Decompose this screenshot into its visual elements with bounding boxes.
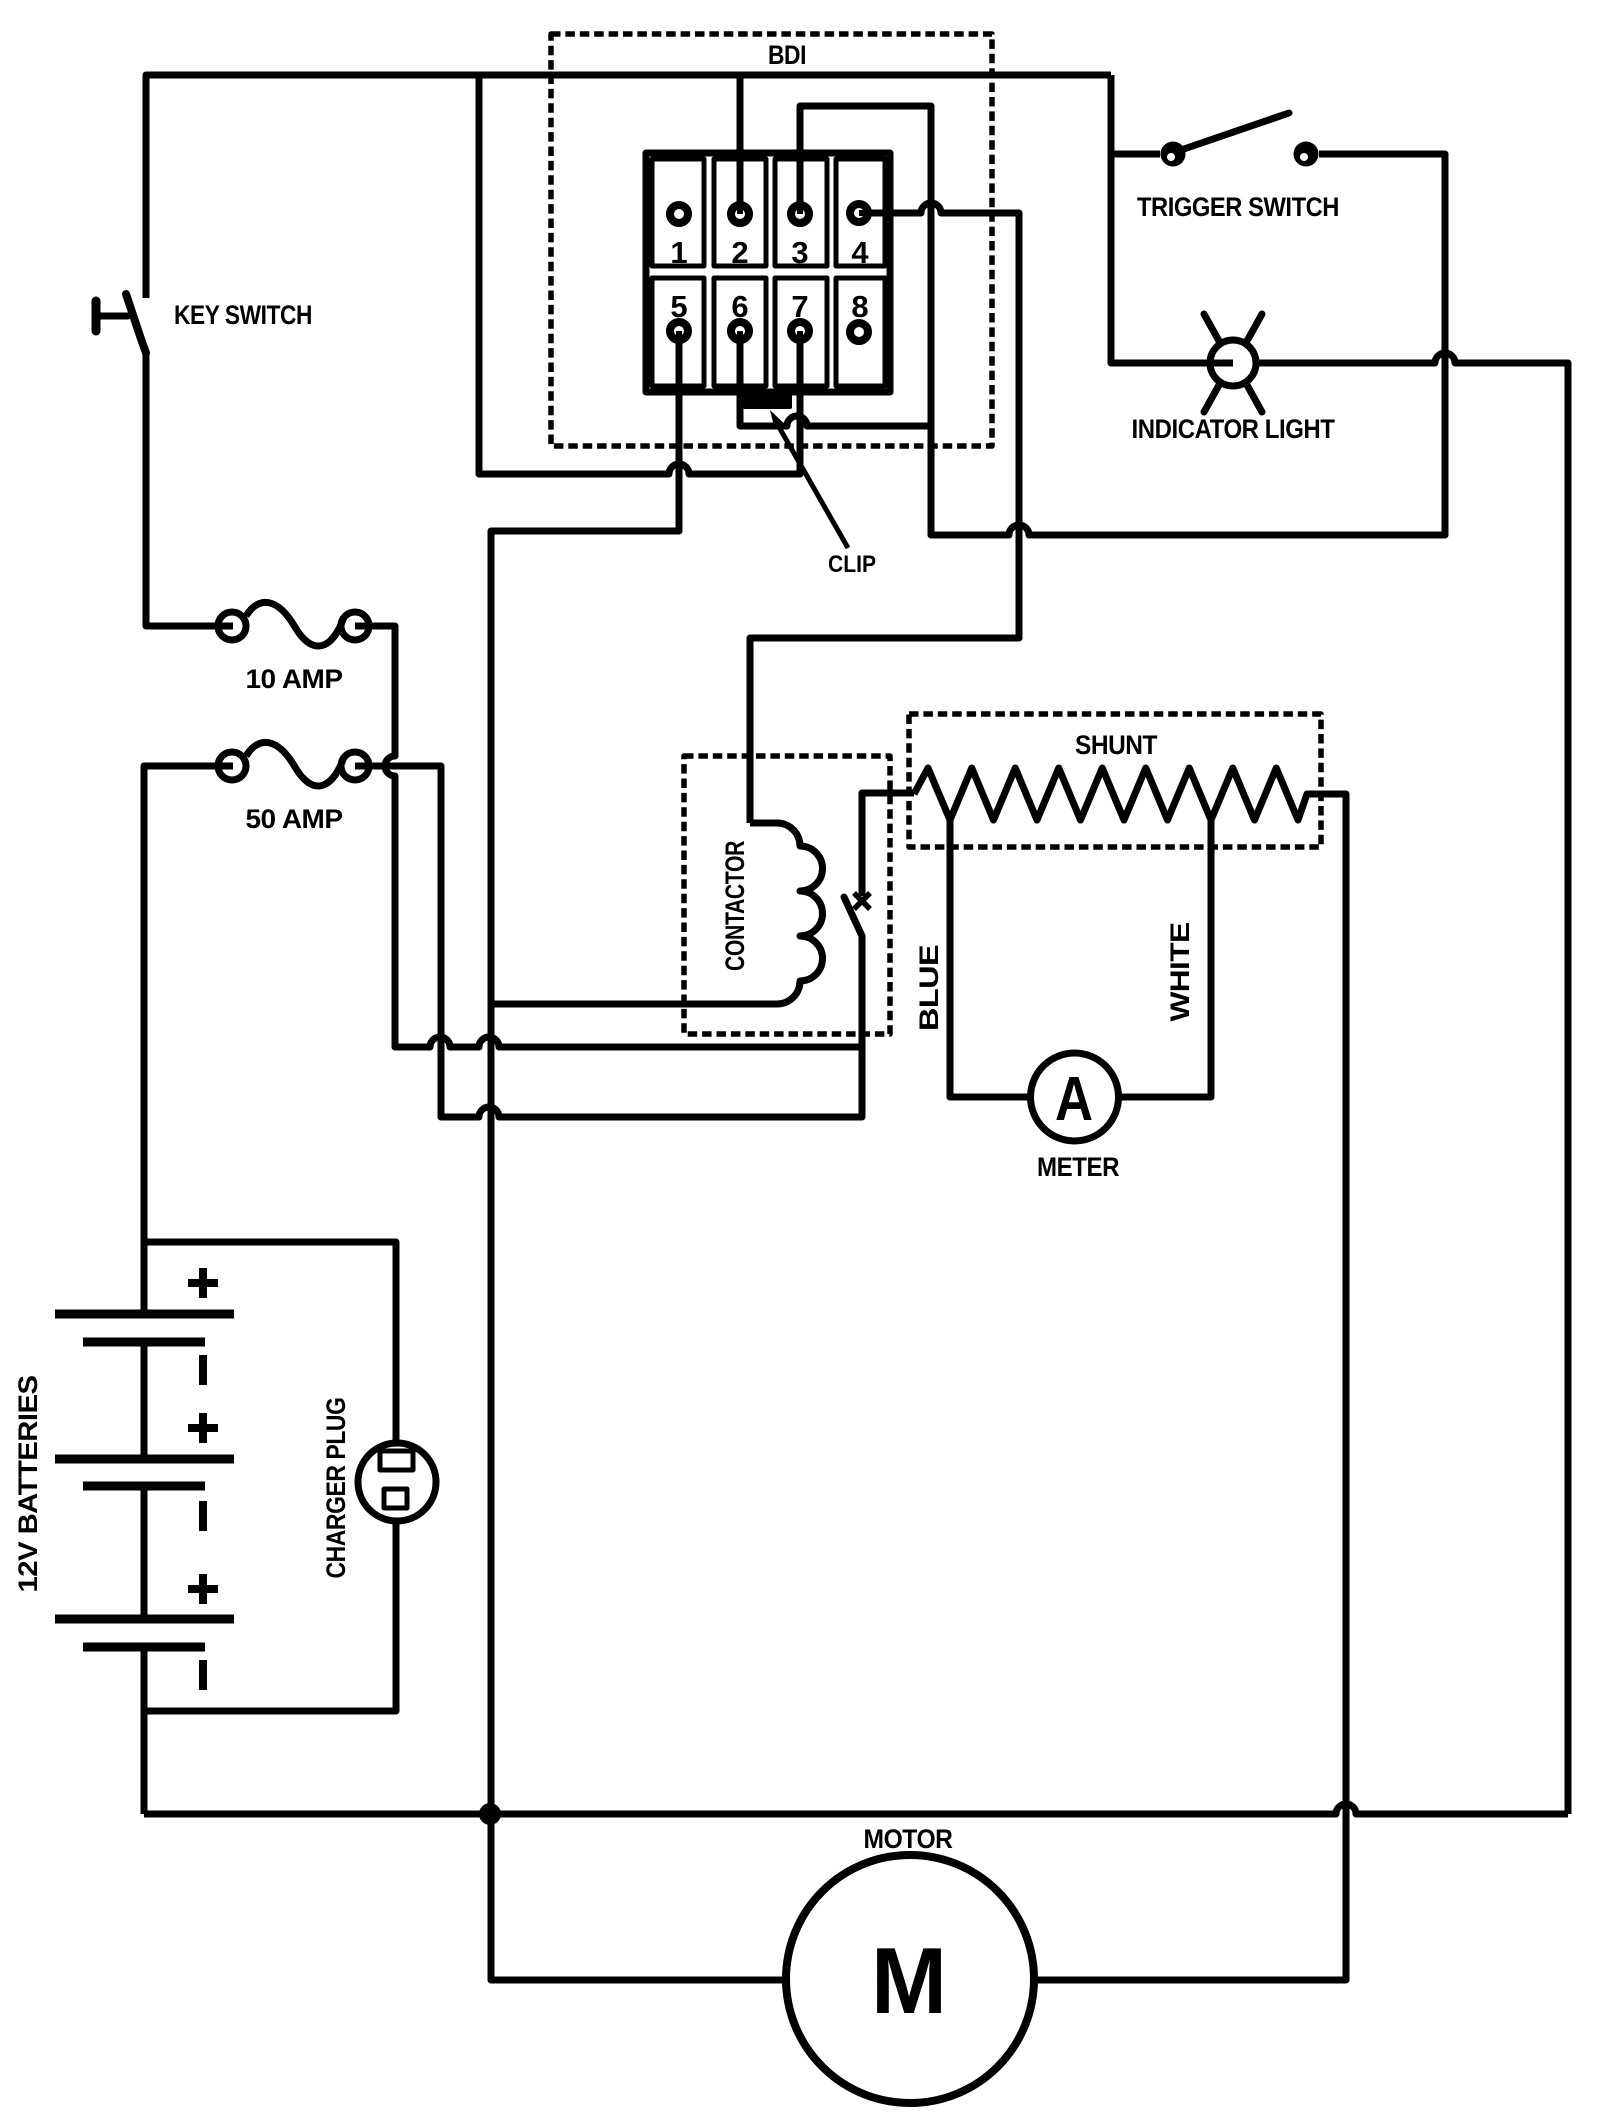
svg-text:8: 8 [851, 289, 868, 324]
fuse F1 10 AMP [218, 602, 370, 646]
svg-text:CLIP: CLIP [828, 551, 876, 578]
wire battery positive to 50 amp fuse [144, 766, 220, 1314]
wire key switch to 10 amp fuse [146, 352, 220, 626]
wire terminal 2 from top bus [737, 75, 744, 214]
wire terminal 6 jumper with hop over pin 7 wire [740, 331, 931, 426]
wire white tap [1117, 820, 1211, 1097]
BDI terminal rings [670, 204, 868, 341]
contactor lever [844, 897, 862, 936]
svg-text:BLUE: BLUE [914, 945, 944, 1031]
svg-text:INDICATOR LIGHT: INDICATOR LIGHT [1132, 414, 1336, 444]
wire 50 amp fuse to contactor lever (line B) with hop [368, 766, 862, 1117]
svg-text:M: M [871, 1928, 947, 2033]
wire terminal 5 down-left and long vertical to bus and motor [491, 331, 786, 1980]
wire indicator light to right rail (hop over trigger vertical) [1257, 353, 1568, 1814]
battery rail segments [141, 1342, 148, 1459]
svg-text:4: 4 [851, 235, 869, 270]
BDI cells row 1 [652, 159, 885, 386]
contactor dashed box [684, 756, 890, 1034]
svg-text:7: 7 [791, 289, 808, 324]
bottom bus wire (hop over motor wire) [144, 1804, 1568, 1814]
svg-text:5: 5 [670, 289, 687, 324]
contactor coil [491, 823, 823, 1004]
svg-text:METER: METER [1037, 1152, 1119, 1182]
shunt zigzag resistor and wire to motor (hop over bus) [914, 768, 1346, 1980]
svg-text:WHITE: WHITE [1165, 923, 1195, 1022]
motor M [786, 1855, 1034, 2103]
contactor contact X [854, 893, 870, 909]
shunt dashed box [909, 714, 1321, 847]
battery polarity signs [188, 1268, 218, 1690]
svg-text:12V BATTERIES: 12V BATTERIES [13, 1376, 43, 1593]
indicator light [1210, 340, 1256, 386]
battery plates [55, 1314, 234, 1647]
svg-text:CHARGER PLUG: CHARGER PLUG [321, 1398, 351, 1579]
meter A [1031, 1053, 1119, 1141]
wire trigger vertical / indicator light line [1111, 75, 1209, 363]
charger plug [358, 1443, 436, 1521]
clip (black rectangle) [743, 393, 792, 409]
wire top bus from key switch to trigger switch [146, 75, 1111, 298]
svg-text:3: 3 [791, 235, 808, 270]
wire 10A fuse to contactor lever (line A) with hops [368, 626, 862, 1047]
wire blue tap [950, 820, 1031, 1097]
charger plug wires [144, 1242, 396, 1445]
svg-text:MOTOR: MOTOR [864, 1824, 953, 1854]
fuse F2 50 AMP [218, 742, 370, 786]
svg-text:50 AMP: 50 AMP [246, 804, 344, 834]
svg-text:KEY SWITCH: KEY SWITCH [174, 300, 312, 330]
BDI pin numbers [670, 235, 869, 324]
key switch [96, 294, 146, 353]
svg-text:6: 6 [731, 289, 748, 324]
svg-text:2: 2 [731, 235, 748, 270]
junction dot [479, 1803, 501, 1825]
BDI dashed box [551, 34, 992, 446]
wire terminal 7 to left branch vertical and top bus [479, 75, 800, 474]
svg-text:1: 1 [670, 235, 687, 270]
svg-text:BDI: BDI [768, 40, 806, 70]
trigger switch [1111, 151, 1160, 158]
svg-text:A: A [1055, 1065, 1093, 1134]
svg-text:SHUNT: SHUNT [1075, 730, 1158, 760]
svg-text:TRIGGER SWITCH: TRIGGER SWITCH [1137, 192, 1339, 222]
BDI terminal block outer box [646, 153, 890, 392]
wire terminal 4 to contactor coil (hop over vertical) [750, 203, 1019, 823]
svg-text:10 AMP: 10 AMP [246, 664, 344, 694]
contactor fixed contact wire from shunt [862, 793, 914, 896]
svg-text:CONTACTOR: CONTACTOR [720, 841, 750, 971]
pin wire stubs into ring holes [679, 203, 870, 342]
clip arrow [779, 427, 848, 548]
wire terminal 3 / terminal 6 to trigger switch right contact [800, 106, 1445, 535]
